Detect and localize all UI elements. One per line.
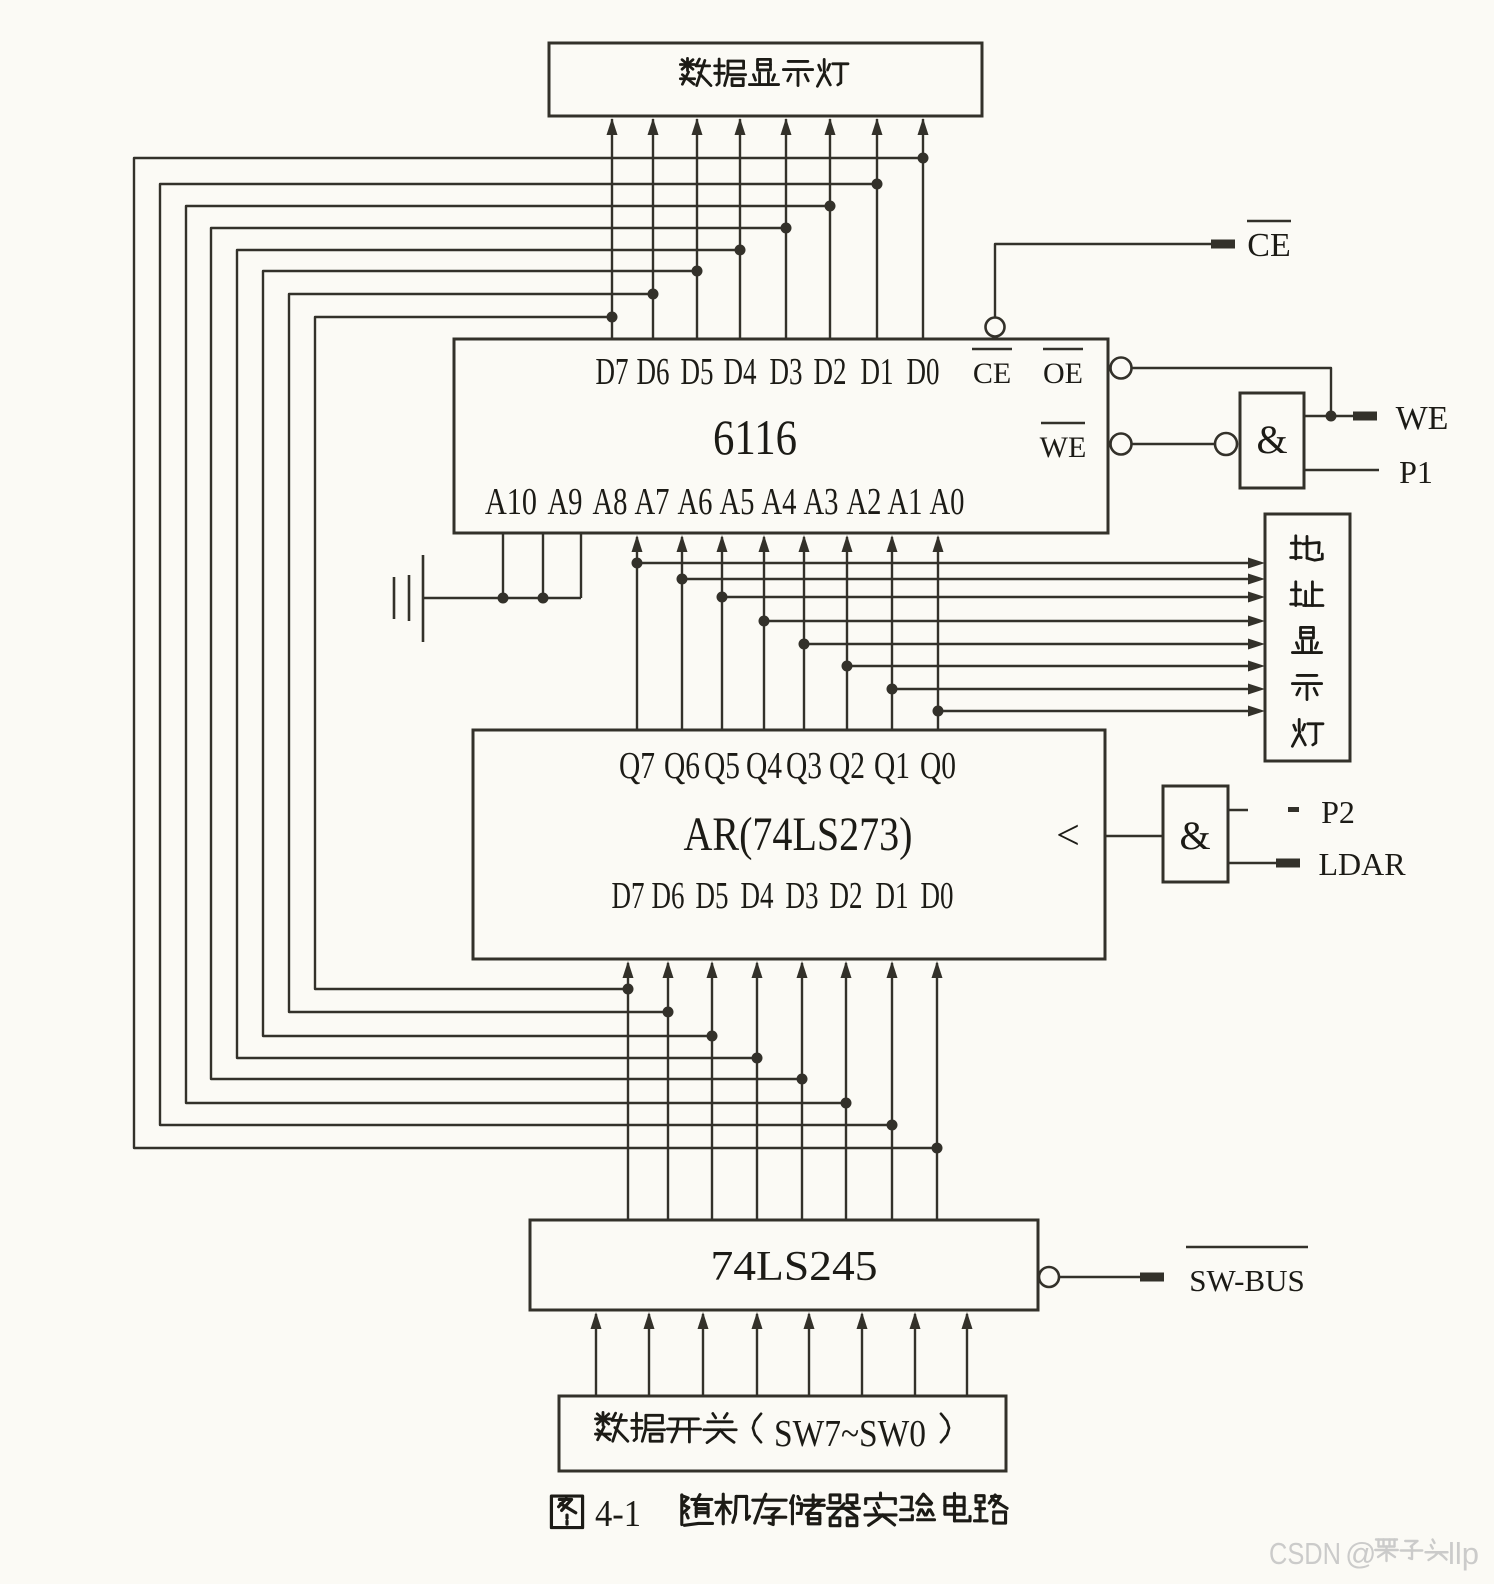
svg-text:D5: D5 — [696, 875, 729, 917]
svg-text:Q0: Q0 — [920, 745, 956, 787]
svg-text:SW7~SW0: SW7~SW0 — [774, 1413, 926, 1455]
svg-text:4-1: 4-1 — [595, 1493, 641, 1535]
svg-text:Q2: Q2 — [829, 745, 865, 787]
svg-text:A3: A3 — [804, 481, 839, 523]
svg-text:D2: D2 — [814, 351, 847, 393]
svg-text:&: & — [1256, 417, 1287, 462]
svg-text:A4: A4 — [762, 481, 797, 523]
svg-text:D1: D1 — [876, 875, 909, 917]
svg-text:SW-BUS: SW-BUS — [1189, 1263, 1304, 1298]
svg-text:P2: P2 — [1321, 794, 1355, 830]
svg-text:LDAR: LDAR — [1318, 846, 1406, 882]
svg-text:D0: D0 — [921, 875, 954, 917]
svg-text:CE: CE — [973, 357, 1011, 390]
svg-text:WE: WE — [1396, 400, 1449, 437]
svg-text:74LS245: 74LS245 — [711, 1244, 878, 1290]
svg-text:6116: 6116 — [713, 409, 797, 465]
svg-text:CE: CE — [1247, 227, 1290, 264]
svg-text:A9: A9 — [548, 481, 583, 523]
svg-text:Q6: Q6 — [664, 745, 700, 787]
svg-text:CSDN: CSDN — [1269, 1536, 1341, 1571]
svg-text:P1: P1 — [1399, 454, 1433, 490]
svg-text:OE: OE — [1043, 357, 1083, 390]
svg-text:D7: D7 — [612, 875, 645, 917]
svg-text:Q7: Q7 — [619, 745, 655, 787]
svg-text:Q4: Q4 — [746, 745, 782, 787]
svg-text:D5: D5 — [681, 351, 714, 393]
svg-text:A1: A1 — [888, 481, 923, 523]
svg-text:A2: A2 — [847, 481, 882, 523]
svg-text:A8: A8 — [593, 481, 628, 523]
svg-text:D3: D3 — [786, 875, 819, 917]
svg-text:Q3: Q3 — [786, 745, 822, 787]
svg-text:D3: D3 — [770, 351, 803, 393]
svg-text:&: & — [1179, 813, 1210, 858]
svg-text:D0: D0 — [907, 351, 940, 393]
svg-text:A5: A5 — [720, 481, 755, 523]
svg-text:WE: WE — [1040, 431, 1087, 464]
svg-text:D2: D2 — [830, 875, 863, 917]
svg-text:A7: A7 — [635, 481, 670, 523]
svg-text:D7: D7 — [596, 351, 629, 393]
svg-text:Q5: Q5 — [704, 745, 740, 787]
svg-text:A10: A10 — [485, 481, 537, 523]
svg-text:D1: D1 — [861, 351, 894, 393]
svg-text:@: @ — [1345, 1536, 1376, 1571]
svg-text:D4: D4 — [741, 875, 774, 917]
svg-text:A6: A6 — [678, 481, 713, 523]
svg-text:Q1: Q1 — [874, 745, 910, 787]
svg-text:D6: D6 — [637, 351, 670, 393]
svg-text:D6: D6 — [652, 875, 685, 917]
svg-text:<: < — [1056, 813, 1080, 859]
svg-text:llp: llp — [1448, 1536, 1479, 1571]
svg-text:D4: D4 — [724, 351, 757, 393]
svg-text:A0: A0 — [930, 481, 965, 523]
svg-text:AR(74LS273): AR(74LS273) — [684, 808, 913, 861]
